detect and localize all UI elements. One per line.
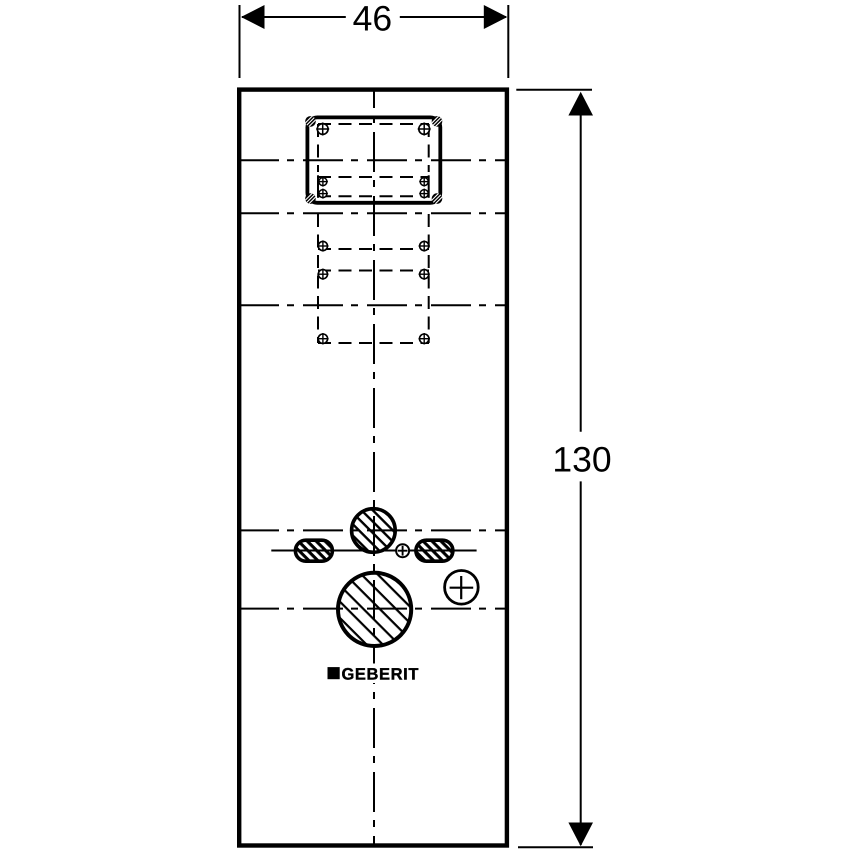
- dimension 46 extension line right: [507, 5, 509, 78]
- dimension 130 arrow bottom: [568, 823, 593, 847]
- dimension 130 extension line bottom: [518, 846, 593, 848]
- screw row6-right: [419, 333, 430, 344]
- water supply stub left: [295, 540, 332, 561]
- geberit logo square: [328, 667, 340, 679]
- small screw mid: [396, 544, 409, 557]
- screw row3-right: [419, 189, 429, 199]
- screw row2-left: [318, 177, 328, 187]
- geberit logo text: [342, 665, 420, 683]
- dimension 130 line lower segment: [580, 481, 582, 845]
- outlet pipe circle: [338, 573, 411, 646]
- dimension 46 line right segment: [400, 16, 506, 18]
- screw row3-left: [318, 189, 328, 199]
- hidden cutout lower: right edge: [428, 214, 430, 343]
- water supply stub right: [416, 540, 453, 561]
- hidden cutout upper: left edge: [317, 124, 319, 172]
- dimension 130 extension line top: [516, 89, 592, 91]
- cover corner fixing top-right: [428, 113, 446, 131]
- cover corner fixing bottom-right: [428, 190, 446, 208]
- centerline horizontal 2: [239, 212, 507, 214]
- module outline: [239, 90, 507, 846]
- hidden cutout upper: mid edge: [318, 176, 429, 178]
- dimension 46 extension line left: [239, 5, 241, 78]
- filling valve connection circle: [352, 509, 396, 553]
- dimension 46 label: [353, 0, 393, 39]
- hidden cutout upper: right edge: [428, 124, 430, 172]
- screw top-right: [418, 123, 431, 136]
- screw row4-right: [419, 240, 430, 251]
- dimension 130 label: [552, 440, 611, 480]
- hidden cutout upper: top edge: [318, 123, 429, 125]
- screw row4-left: [317, 240, 328, 251]
- hidden cutout lower: left edge: [317, 214, 319, 343]
- hidden cutout lower: row line 2: [318, 270, 429, 272]
- svg-text:GEBERIT: GEBERIT: [342, 665, 420, 683]
- screw row2-right: [419, 177, 429, 187]
- geberit logo backdrop: [322, 664, 424, 684]
- centerline horizontal 3: [239, 304, 507, 306]
- dimension 46 line left segment: [242, 16, 346, 18]
- dimension 130 line upper segment: [580, 95, 582, 432]
- cover corner fixing bottom-left: [302, 190, 320, 208]
- svg-text:130: 130: [552, 440, 611, 480]
- dimension 46 arrow left: [241, 5, 265, 29]
- screw row5-right: [419, 269, 430, 280]
- crossed hole marker: [445, 571, 479, 605]
- hidden cutout lower: row line 1: [318, 248, 429, 250]
- dimension 46 arrow right: [484, 5, 508, 29]
- centerline horizontal 5: [239, 608, 507, 610]
- hidden cutout upper: bottom edge: [318, 195, 429, 197]
- centerline horizontal 1: [239, 159, 507, 161]
- cover corner fixing top-left: [302, 113, 320, 131]
- screw row5-left: [317, 269, 328, 280]
- svg-text:46: 46: [353, 0, 393, 39]
- hidden cutout lower: bottom edge: [318, 342, 429, 344]
- dimension 130 arrow top: [568, 92, 593, 116]
- screw top-left: [316, 123, 329, 136]
- supply axis line: [271, 550, 476, 552]
- flush unit cover plate: [307, 117, 440, 202]
- centerline vertical: [373, 90, 375, 845]
- screw row6-left: [317, 333, 328, 344]
- centerline horizontal 4: [239, 529, 507, 531]
